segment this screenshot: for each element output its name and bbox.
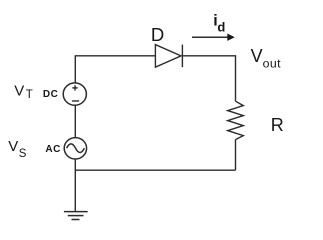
svg-text:d: d: [217, 20, 225, 35]
svg-text:AC: AC: [45, 144, 60, 155]
AC source VS: [64, 138, 86, 159]
svg-text:T: T: [26, 89, 33, 101]
svg-text:S: S: [19, 148, 27, 160]
svg-text:V: V: [251, 46, 263, 66]
ground: [64, 212, 88, 220]
wire between DC source and AC source: [74, 105, 76, 137]
current arrow i_d: [192, 36, 228, 38]
svg-text:D: D: [151, 24, 164, 45]
resistor R: [228, 101, 244, 139]
wire resistor bottom to bottom rail: [235, 140, 237, 171]
svg-text:V: V: [14, 82, 24, 99]
wire AC source to ground: [74, 159, 76, 212]
DC source VT: [63, 83, 86, 105]
svg-text:V: V: [8, 138, 18, 155]
wire diode cathode to right rail top: [182, 56, 235, 101]
diode D: [155, 45, 182, 68]
svg-text:DC: DC: [43, 89, 58, 100]
svg-text:R: R: [271, 115, 284, 135]
wire bottom rail: [75, 169, 235, 171]
wire top-left: left rail top corner to diode anode: [75, 56, 155, 83]
svg-text:out: out: [263, 57, 281, 71]
